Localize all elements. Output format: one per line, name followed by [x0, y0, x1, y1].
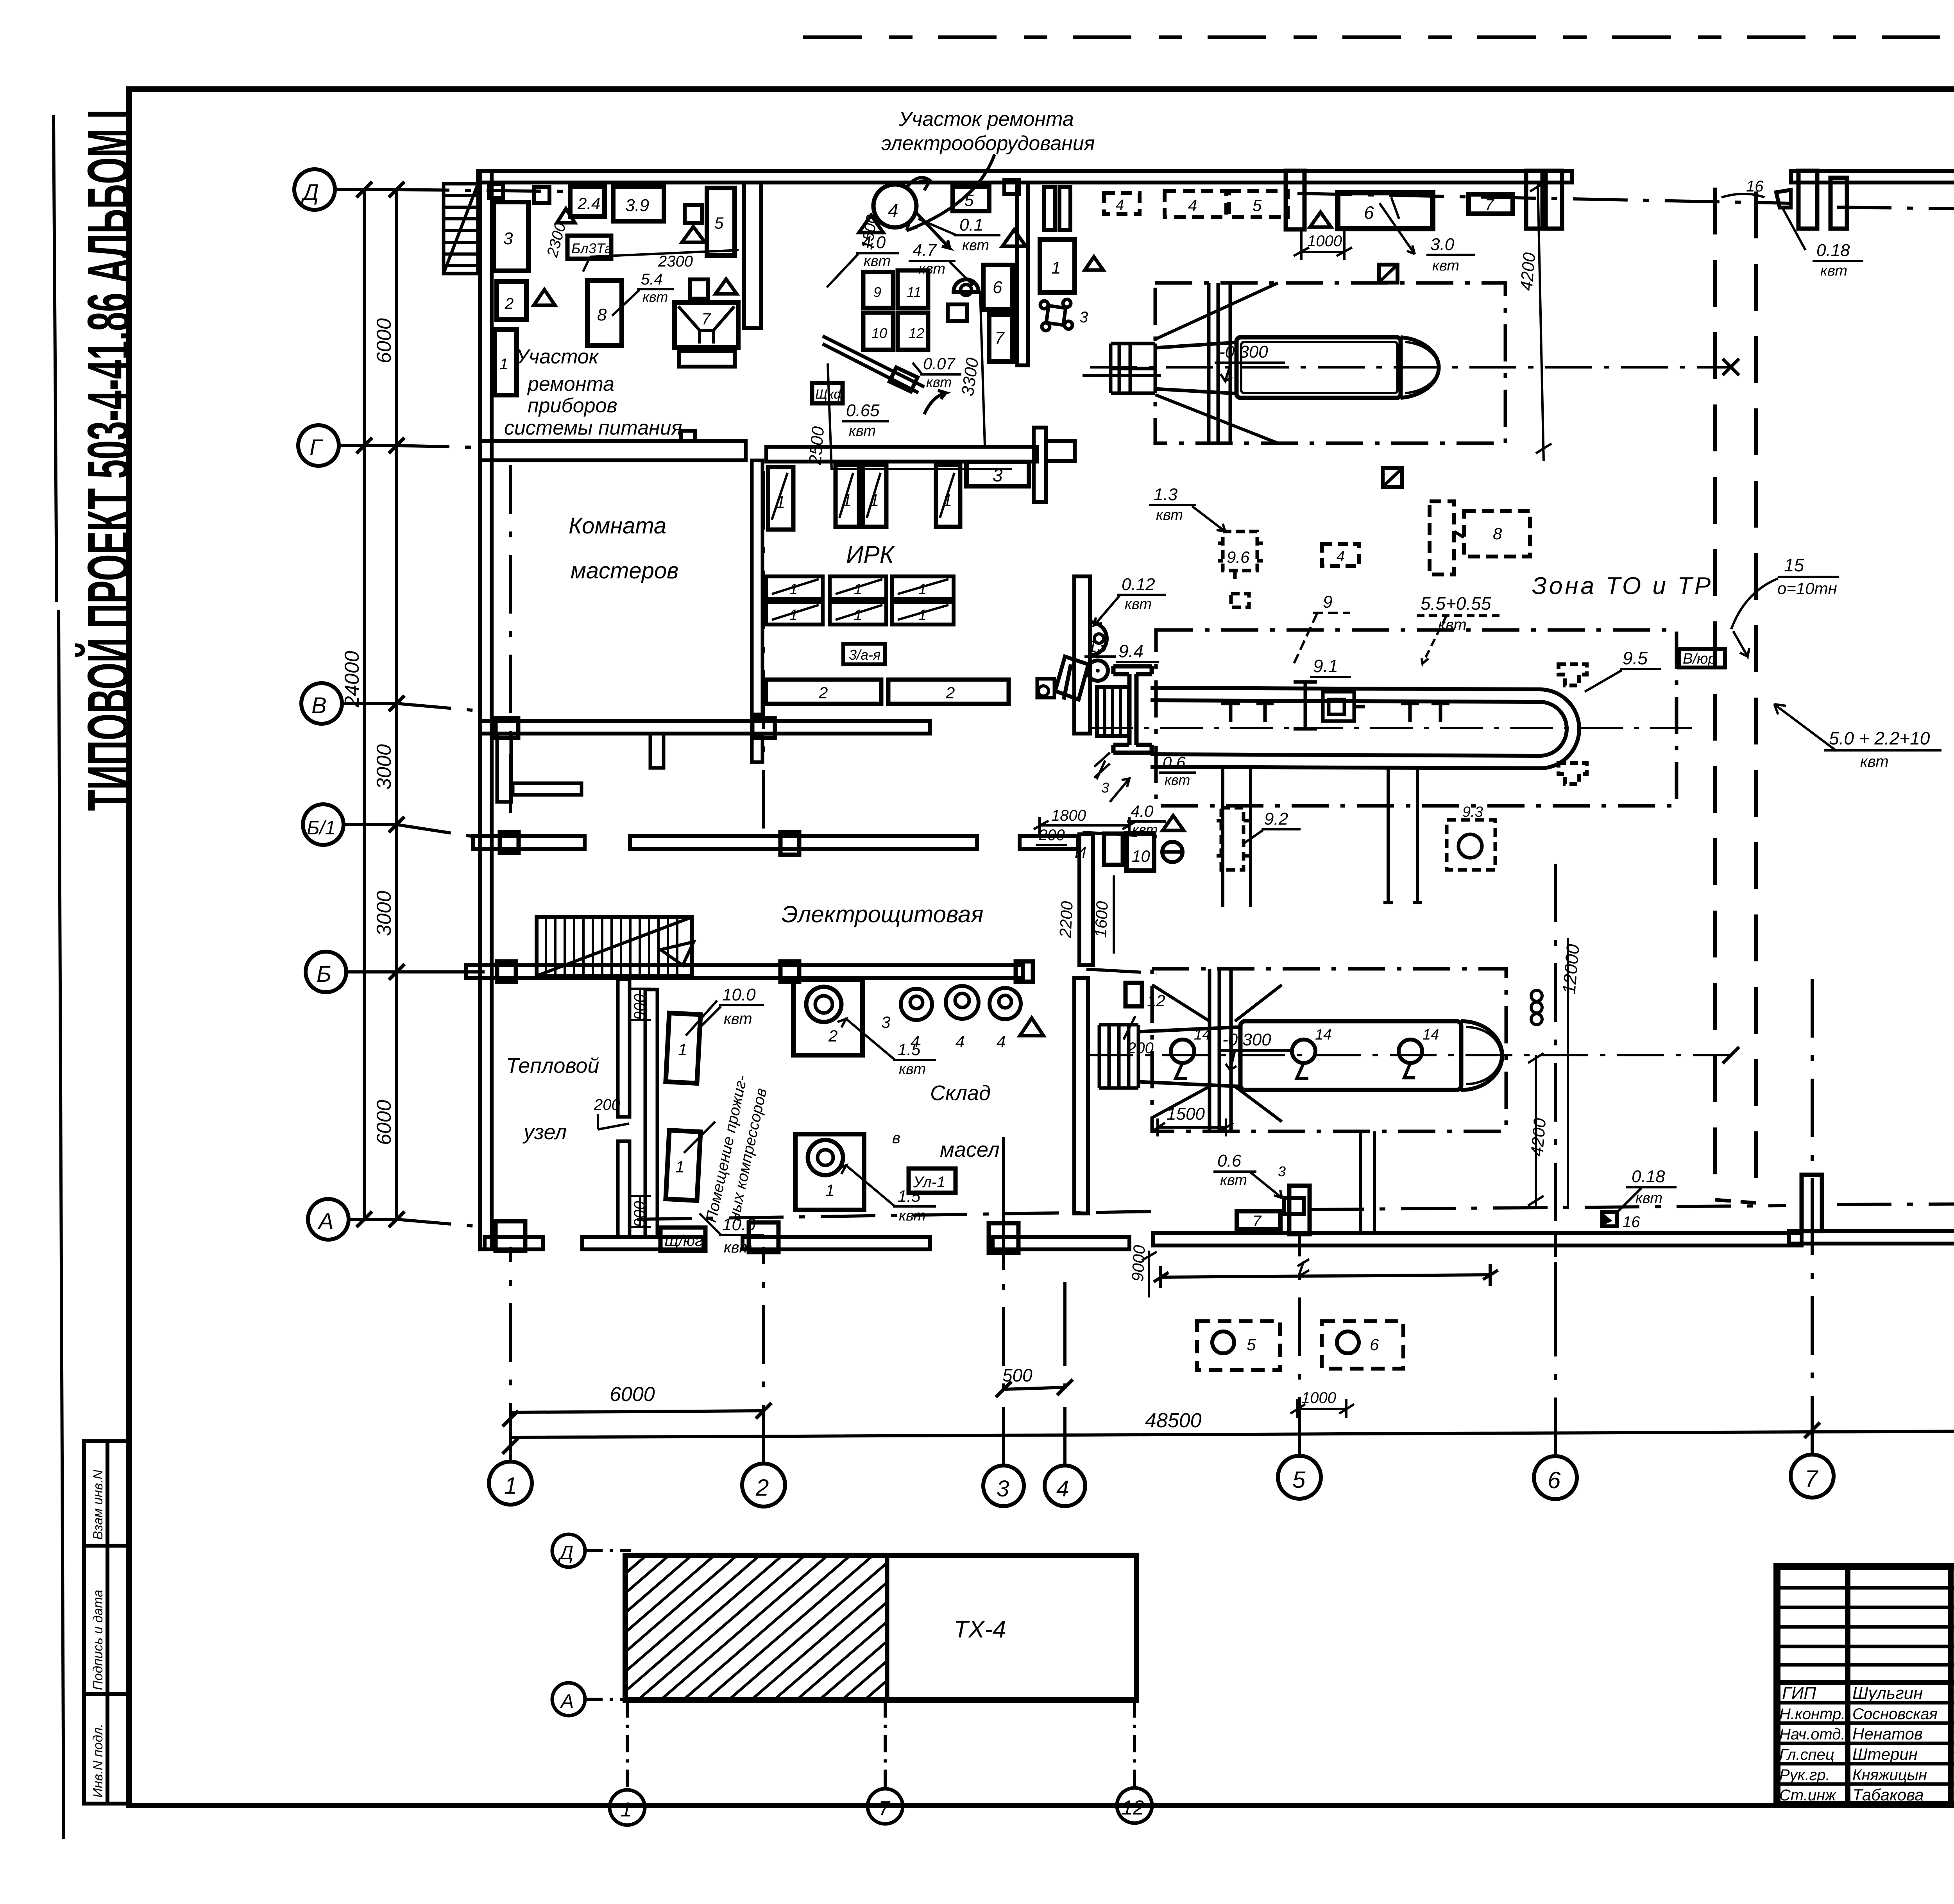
svg-text:9.1: 9.1 — [1313, 656, 1338, 676]
svg-text:1800: 1800 — [1051, 807, 1086, 824]
svg-text:1600: 1600 — [1091, 900, 1111, 938]
landing line — [1083, 374, 1161, 377]
wall on axis V — [480, 721, 930, 734]
svg-text:2: 2 — [945, 684, 955, 702]
svg-text:ТХ-4: ТХ-4 — [954, 1616, 1006, 1643]
svg-text:квт: квт — [1165, 772, 1190, 788]
item 5 box — [953, 187, 989, 211]
svg-text:Склад: Склад — [930, 1081, 991, 1105]
svg-text:4: 4 — [888, 200, 898, 221]
svg-text:10: 10 — [1132, 847, 1150, 865]
svg-text:15: 15 — [1784, 555, 1804, 575]
svg-text:4: 4 — [997, 1033, 1006, 1051]
Ul-1 box — [909, 1169, 956, 1193]
7 hopper — [675, 302, 738, 347]
svg-text:2: 2 — [755, 1475, 769, 1501]
trench body — [1151, 688, 1540, 768]
svg-text:Сосновская: Сосновская — [1852, 1705, 1938, 1723]
svg-text:1: 1 — [675, 1158, 684, 1176]
svg-text:1: 1 — [789, 607, 798, 623]
svg-text:2500: 2500 — [805, 426, 828, 466]
svg-text:Шульгин: Шульгин — [1852, 1684, 1923, 1703]
svg-text:квт: квт — [899, 1061, 926, 1077]
svg-text:А: А — [560, 1690, 574, 1712]
2x2 grid boxes — [863, 272, 893, 308]
bottom dimension chain — [510, 1387, 1954, 1437]
svg-text:0.18: 0.18 — [1632, 1167, 1665, 1186]
svg-text:16: 16 — [1623, 1213, 1640, 1231]
exhaust pipes below lower platform — [1361, 1131, 1374, 1233]
svg-text:10: 10 — [871, 325, 887, 341]
svg-text:4: 4 — [956, 1033, 964, 1051]
left outer wall — [480, 171, 492, 1249]
svg-text:6000: 6000 — [373, 318, 395, 363]
svg-text:10.0: 10.0 — [722, 1215, 756, 1234]
svg-text:Ст.инж: Ст.инж — [1779, 1787, 1836, 1804]
svg-text:9.5: 9.5 — [1623, 648, 1648, 668]
svg-text:200: 200 — [594, 1096, 620, 1113]
small pilaster top-left — [489, 184, 503, 198]
9.3 item — [1447, 820, 1495, 870]
walls on axis B/1 — [473, 836, 585, 849]
svg-text:9.2: 9.2 — [1264, 809, 1288, 829]
svg-text:14: 14 — [1423, 1027, 1439, 1043]
svg-text:1: 1 — [789, 581, 798, 598]
svg-text:Инв.N подл.: Инв.N подл. — [91, 1724, 106, 1798]
svg-text:Взам инв.N: Взам инв.N — [91, 1469, 106, 1540]
svg-text:12: 12 — [1147, 991, 1165, 1010]
vehicle top — [1111, 337, 1439, 398]
pipes down (9.2) — [1223, 768, 1422, 907]
svg-text:1: 1 — [825, 1181, 834, 1199]
ANNOT — [1090, 575, 1196, 837]
svg-text:квт: квт — [724, 1239, 752, 1256]
svg-text:Электрощитовая: Электрощитовая — [782, 901, 983, 927]
top-left partition — [744, 183, 761, 328]
Shch box bottom — [660, 1228, 705, 1251]
svg-text:4: 4 — [911, 1033, 920, 1051]
KEYPLAN — [461, 1534, 1152, 1825]
left stamp strip (bottom-left, outside frame) — [84, 1441, 129, 1804]
svg-text:11: 11 — [907, 284, 921, 300]
svg-text:квт: квт — [864, 253, 891, 269]
svg-text:А: А — [317, 1209, 334, 1234]
svg-text:ИРК: ИРК — [846, 541, 895, 568]
Shkaf box — [812, 383, 843, 403]
3/a-3 box — [843, 644, 885, 664]
trench platform dash-dot rect — [1156, 630, 1677, 806]
oil tanks — [793, 979, 862, 1055]
dashed box 4 — [1104, 193, 1140, 214]
svg-text:0.07: 0.07 — [923, 354, 956, 373]
svg-text:1: 1 — [918, 607, 927, 623]
svg-text:узел: узел — [522, 1120, 567, 1144]
bollards — [1221, 703, 1449, 722]
svg-text:12000: 12000 — [1559, 943, 1583, 995]
svg-text:9.6: 9.6 — [1227, 548, 1250, 566]
svg-text:9.4: 9.4 — [1118, 641, 1143, 661]
svg-text:4: 4 — [1337, 548, 1345, 565]
svg-text:24000: 24000 — [341, 651, 363, 708]
svg-text:Г: Г — [310, 435, 324, 460]
svg-text:квт: квт — [1125, 596, 1152, 612]
three drum circles — [901, 989, 932, 1020]
lift posts — [1209, 283, 1230, 443]
svg-text:квт: квт — [1132, 821, 1158, 837]
svg-text:приборов: приборов — [528, 394, 617, 417]
svg-text:квт: квт — [962, 237, 989, 254]
svg-text:5: 5 — [1253, 196, 1262, 215]
svg-text:Штерин: Штерин — [1852, 1745, 1918, 1763]
svg-text:В/юр: В/юр — [1683, 651, 1716, 667]
svg-text:Б/1: Б/1 — [307, 817, 336, 839]
svg-text:48500: 48500 — [1145, 1409, 1202, 1432]
svg-text:200: 200 — [1038, 827, 1065, 844]
svg-text:квт: квт — [642, 289, 668, 305]
svg-text:6: 6 — [1370, 1335, 1379, 1354]
svg-text:Д: Д — [558, 1542, 573, 1564]
dashed 8 boxes — [1430, 501, 1454, 574]
Z flag 2 — [1383, 468, 1402, 487]
svg-text:Н.контр.: Н.контр. — [1779, 1705, 1845, 1723]
svg-text:Д: Д — [301, 180, 319, 205]
svg-text:0.1: 0.1 — [959, 215, 983, 234]
svg-text:500: 500 — [1002, 1365, 1032, 1385]
svg-text:3.0: 3.0 — [1430, 235, 1455, 254]
exterior stairs top-left — [444, 184, 478, 274]
svg-text:Рук.гр.: Рук.гр. — [1779, 1766, 1830, 1784]
svg-text:Тепловой: Тепловой — [506, 1054, 599, 1077]
bottom columns — [496, 1221, 525, 1251]
AXES — [294, 169, 1954, 1507]
svg-text:Комната: Комната — [569, 513, 666, 539]
svg-text:Табакова: Табакова — [1852, 1786, 1924, 1804]
svg-text:2.4: 2.4 — [577, 194, 600, 213]
sheet left edge line — [54, 115, 64, 1839]
svg-text:1500: 1500 — [1167, 1104, 1205, 1124]
svg-text:3: 3 — [881, 1013, 890, 1031]
svg-text:Подпись и дата: Подпись и дата — [91, 1590, 106, 1690]
ROOMS — [504, 108, 1095, 1256]
svg-text:2: 2 — [505, 295, 514, 312]
svg-text:0.6: 0.6 — [1163, 753, 1186, 771]
top margin dashed line — [803, 36, 1954, 39]
compressor room left wall — [645, 990, 657, 1237]
svg-text:квт: квт — [1635, 1190, 1662, 1206]
svg-text:1: 1 — [842, 491, 852, 510]
svg-text:14: 14 — [1194, 1027, 1210, 1043]
svg-text:квт: квт — [926, 374, 952, 390]
svg-text:10.0: 10.0 — [722, 985, 756, 1004]
steps into trench — [1097, 687, 1129, 736]
svg-text:1: 1 — [854, 581, 862, 598]
three small circles — [1531, 990, 1542, 1001]
svg-text:Гл.спец: Гл.спец — [1779, 1746, 1834, 1763]
svg-text:9: 9 — [873, 284, 881, 300]
svg-text:1: 1 — [943, 491, 952, 510]
svg-text:Зона ТО и ТР: Зона ТО и ТР — [1532, 573, 1713, 599]
svg-text:И: И — [1075, 844, 1086, 861]
svg-text:6: 6 — [993, 278, 1002, 297]
partition masters/IRK — [752, 460, 762, 714]
svg-text:8: 8 — [597, 305, 607, 324]
TITLEBLOCK — [1777, 1439, 1954, 1842]
svg-text:ремонта: ремонта — [527, 373, 614, 395]
svg-text:0.18: 0.18 — [1816, 241, 1850, 260]
svg-text:Участок ремонта: Участок ремонта — [898, 108, 1074, 131]
left dimension vertical lines — [364, 190, 397, 1219]
svg-text:1.3: 1.3 — [1154, 485, 1178, 504]
svg-text:9.3: 9.3 — [1462, 804, 1483, 820]
svg-text:Ненатов: Ненатов — [1852, 1725, 1923, 1743]
wall on axis B — [466, 965, 1023, 978]
dashed 4 box — [1322, 544, 1359, 566]
svg-text:1: 1 — [621, 1798, 632, 1821]
svg-text:1000: 1000 — [1307, 233, 1342, 250]
svg-text:8: 8 — [1493, 524, 1502, 543]
svg-text:7: 7 — [1253, 1213, 1262, 1230]
bottom grid circles — [489, 1462, 532, 1505]
box 3 top right of IRK — [966, 462, 1029, 486]
svg-text:5: 5 — [964, 191, 974, 209]
svg-text:3/а-я: 3/а-я — [849, 647, 880, 663]
svg-text:Ул-1: Ул-1 — [913, 1174, 945, 1191]
svg-text:5.5+0.55: 5.5+0.55 — [1421, 593, 1491, 614]
svg-text:200: 200 — [1127, 1040, 1154, 1057]
axis row circles — [294, 169, 335, 210]
svg-text:1000: 1000 — [1301, 1389, 1336, 1407]
svg-text:мастеров: мастеров — [571, 558, 678, 583]
svg-text:9: 9 — [1323, 592, 1332, 612]
hatched part — [461, 1540, 1095, 1716]
vertical axis lines to circles — [510, 461, 1812, 1466]
svg-text:1: 1 — [776, 493, 785, 512]
svg-text:7: 7 — [1485, 196, 1494, 213]
svg-text:3: 3 — [1101, 780, 1109, 796]
svg-text:5.4: 5.4 — [641, 271, 663, 288]
main title block outer — [1777, 1567, 1954, 1804]
svg-text:о=10тн: о=10тн — [1777, 579, 1837, 598]
svg-text:3000: 3000 — [373, 891, 395, 936]
svg-text:4200: 4200 — [1527, 1117, 1550, 1157]
svg-text:12: 12 — [909, 325, 924, 341]
svg-text:квт: квт — [1432, 258, 1459, 274]
svg-text:-0.300: -0.300 — [1222, 1030, 1271, 1049]
svg-text:2: 2 — [828, 1027, 837, 1045]
svg-text:9000: 9000 — [1128, 1244, 1149, 1282]
svg-text:Нач.отд.: Нач.отд. — [1779, 1726, 1845, 1743]
EQUIP — [494, 177, 1161, 469]
svg-text:квт: квт — [1860, 753, 1889, 770]
9.5 end brackets — [1559, 664, 1587, 784]
svg-text:квт: квт — [1156, 507, 1183, 523]
left rows (empty top rows) — [1777, 1588, 1954, 1665]
left columns — [1848, 1567, 1954, 1804]
centerline — [1090, 366, 1731, 369]
sklad masel right wall — [1074, 978, 1088, 1213]
trench centerline — [1090, 727, 1692, 729]
svg-text:3: 3 — [1278, 1163, 1286, 1179]
item 6 and 7 — [983, 265, 1013, 310]
svg-text:2: 2 — [818, 684, 828, 702]
svg-text:1: 1 — [1051, 258, 1061, 277]
svg-text:4: 4 — [1056, 1476, 1069, 1501]
key plan axis circles — [552, 1534, 585, 1567]
IRK right wall piece — [1074, 576, 1090, 734]
svg-text:14: 14 — [1315, 1027, 1331, 1043]
svg-text:квт: квт — [899, 1208, 926, 1224]
circle symbol — [954, 279, 979, 292]
svg-text:3: 3 — [1079, 309, 1088, 326]
svg-text:квт: квт — [1820, 263, 1847, 279]
svg-text:6: 6 — [1364, 202, 1374, 223]
svg-text:2200: 2200 — [1056, 900, 1076, 938]
ticks on dim lines — [356, 182, 404, 1227]
svg-text:7: 7 — [995, 329, 1005, 348]
washbasin on IRK wall — [1090, 622, 1107, 655]
svg-text:1: 1 — [678, 1040, 687, 1059]
axis row lines — [335, 190, 485, 1219]
IRK bottom benches — [766, 680, 881, 704]
9.2 item — [1217, 808, 1249, 870]
svg-text:1: 1 — [854, 607, 862, 623]
svg-text:квт: квт — [849, 423, 876, 439]
svg-text:в: в — [892, 1129, 900, 1147]
svg-text:6: 6 — [1548, 1467, 1561, 1493]
svg-text:7: 7 — [879, 1797, 891, 1820]
interior stairs (hatched) — [537, 917, 694, 976]
12 item below B — [1126, 983, 1142, 1006]
top outer wall — [478, 171, 1572, 183]
top wall columns — [1044, 187, 1055, 230]
svg-text:1: 1 — [918, 581, 927, 598]
svg-text:3: 3 — [503, 229, 513, 248]
svg-text:квт: квт — [724, 1010, 752, 1027]
svg-text:1: 1 — [870, 491, 879, 510]
svg-text:квт: квт — [1220, 1172, 1247, 1188]
svg-text:0.12: 0.12 — [1122, 575, 1155, 594]
svg-text:12: 12 — [1122, 1797, 1144, 1819]
svg-text:4.7: 4.7 — [913, 241, 937, 260]
svg-text:7: 7 — [701, 310, 711, 328]
svg-text:квт: квт — [918, 261, 945, 277]
svg-text:Бл3Та: Бл3Та — [571, 240, 612, 256]
diagonals — [1155, 283, 1278, 443]
partition above IRK right — [1034, 428, 1046, 502]
svg-text:7: 7 — [1805, 1466, 1819, 1492]
svg-text:5: 5 — [1247, 1335, 1256, 1354]
svg-text:системы питания: системы питания — [504, 417, 682, 439]
svg-text:0.6: 0.6 — [1217, 1151, 1242, 1170]
dashed item boxes 5,6 with circles — [1197, 1321, 1280, 1370]
svg-text:Княжицын: Княжицын — [1852, 1766, 1927, 1784]
key plan rect — [625, 1555, 1136, 1700]
svg-text:5.0 + 2.2+10: 5.0 + 2.2+10 — [1829, 728, 1930, 748]
svg-text:ГИП: ГИП — [1782, 1684, 1816, 1703]
wall on axis G — [480, 441, 746, 460]
svg-text:5: 5 — [714, 214, 724, 232]
electro room right wall — [1079, 834, 1093, 965]
svg-text:5: 5 — [1292, 1467, 1306, 1493]
svg-text:6000: 6000 — [373, 1100, 395, 1145]
svg-text:4: 4 — [1188, 196, 1197, 215]
svg-text:3: 3 — [997, 1476, 1009, 1501]
svg-text:Щ/юг: Щ/юг — [664, 1232, 703, 1249]
boilers — [666, 1013, 700, 1083]
svg-text:Б: Б — [317, 961, 331, 987]
WALLS — [444, 166, 1954, 1253]
svg-text:Участок: Участок — [515, 345, 599, 368]
3 x-frame — [1040, 299, 1072, 331]
diagonal conveyor — [823, 336, 924, 393]
svg-text:1: 1 — [504, 1473, 517, 1499]
teplo uzel right wall — [618, 979, 630, 1117]
svg-text:3000: 3000 — [373, 744, 395, 789]
svg-text:0.65: 0.65 — [846, 401, 880, 420]
svg-text:4: 4 — [1116, 197, 1124, 213]
svg-text:-0.300: -0.300 — [1219, 342, 1268, 361]
IRK vertical racks row — [768, 467, 793, 530]
IRK shelf rows — [766, 576, 823, 599]
second-floor partition upper — [1017, 183, 1028, 365]
svg-text:В: В — [311, 693, 327, 718]
svg-text:электрооборудования: электрооборудования — [881, 132, 1095, 155]
svg-text:4.0: 4.0 — [1131, 802, 1154, 820]
grill — [1111, 342, 1236, 394]
corridor stubs below V — [497, 734, 511, 802]
svg-text:4200: 4200 — [1517, 252, 1539, 292]
svg-text:2300: 2300 — [658, 253, 693, 270]
svg-text:6000: 6000 — [610, 1383, 655, 1406]
svg-text:ТИПОВОЙ ПРОЕКТ 503-4-41.86: ТИПОВОЙ ПРОЕКТ 503-4-41.86 АЛЬБОМ I — [74, 109, 143, 811]
Z flag — [1379, 265, 1398, 283]
bottom outer wall segments — [485, 1237, 543, 1249]
7 box on wall — [1237, 1211, 1280, 1229]
svg-text:1: 1 — [499, 356, 508, 373]
svg-text:масел: масел — [940, 1138, 1000, 1161]
svg-text:3.9: 3.9 — [625, 196, 649, 215]
